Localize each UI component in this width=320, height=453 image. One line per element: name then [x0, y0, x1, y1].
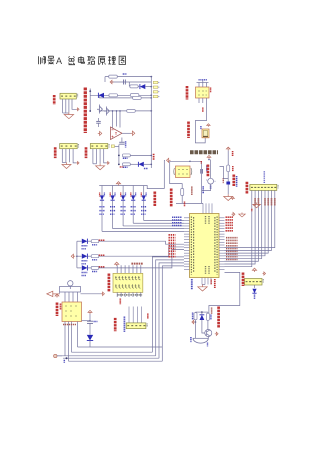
label blue under R18 [92, 244, 98, 246]
label C8 blue [94, 321, 98, 323]
wire LED2 to MCU staircase [99, 247, 184, 256]
diode D6 (blue, down) [121, 195, 125, 200]
label blue under LED3 [82, 272, 88, 274]
label LED3 red [99, 266, 105, 268]
wire R21 down to buzzer [195, 320, 197, 339]
diode D7 (blue, down) [131, 195, 135, 200]
wire D16 loop left [78, 346, 91, 348]
label value rows blue (col 2) [110, 206, 115, 208]
capacitor C2 (left edge) [96, 120, 101, 122]
wire crystal right rail [190, 161, 202, 203]
ground (below J1) [64, 112, 73, 119]
wire keypad bottom pin 6 [136, 292, 138, 297]
keypad module S1-S16 (yellow box) [113, 273, 143, 292]
label red tags right of rail [153, 154, 155, 160]
wire left bend down [104, 77, 106, 82]
wire J2 pin join [62, 162, 66, 164]
resistor R19 [91, 255, 99, 258]
transistor Q1 (top-center) [97, 105, 103, 114]
resistor R3 on y95.3 [130, 94, 139, 97]
wire diode-resistor [87, 240, 91, 242]
label tiny blue right of column 5 [145, 193, 147, 197]
ground below J3 [96, 164, 105, 170]
wire J7 down [254, 285, 256, 288]
label red tiny top-right of J8 [147, 314, 149, 319]
node dots on y110.9 [112, 110, 114, 112]
crystal oscillator box U3 (yellow) [176, 166, 191, 178]
capacitor C6 (blue block) [226, 182, 230, 185]
power arrow right of J2 pins [76, 162, 79, 165]
power arrow right of op-amp (output) [131, 131, 135, 135]
wire R8 bottom [181, 196, 183, 204]
label 超声波测距模块接口(已做PCB板) long red vertical text [84, 88, 87, 134]
wire bottom bus 4 (to riser4) [69, 360, 163, 362]
label red pins below U5 [63, 324, 76, 326]
wire J2 pin4 down+right [73, 149, 76, 163]
wire switch to regulator [64, 292, 66, 302]
label 上电按键复位电路 long red vertical [170, 189, 173, 207]
diode D2 (blue, pointing left) on y95.3 [98, 93, 104, 98]
wire Q3 emitter down [207, 337, 209, 339]
wire LED rail vertical [76, 241, 78, 268]
resistor R5 on y110.9 [127, 110, 136, 113]
label blue below D3 [144, 168, 148, 170]
net-label pins blue marks [158, 82, 159, 96]
power arrow left of op-amp (pointing right) [98, 131, 102, 135]
wire U2 to module J5 (bypass loop) [195, 103, 206, 143]
connector J7 download (yellow) [245, 279, 263, 286]
node dot crystal top [189, 161, 191, 163]
ground below MCU [198, 285, 207, 292]
resistor R22 (vertical right) [206, 313, 209, 320]
node C8 [89, 320, 90, 321]
diode D16 (blue, big, down) [87, 335, 93, 341]
module J5 (small yellow box) [202, 129, 209, 138]
junction dot x118.9 y164.4 [118, 164, 120, 166]
label value rows blue (col 5) [141, 206, 146, 208]
label tiny blue right of column 2 [114, 193, 116, 197]
wire switch right [81, 293, 102, 295]
connector J1 (ultrasonic module, top-left) [60, 93, 76, 99]
resistor R2 on y95.3 [109, 94, 118, 97]
label blue under LED1 [82, 245, 88, 247]
MCU U4 STC89C52 (large yellow DIP) [190, 214, 220, 278]
LED D13 (blue) [82, 254, 88, 259]
label tiny blue right of column 4 [135, 193, 137, 197]
resistor R8 (reset pulldown, vertical) [181, 189, 184, 196]
wire J1 pin4 down+right [72, 99, 76, 109]
node dot LED rail [76, 255, 78, 257]
wire reset to MCU [220, 167, 229, 179]
segment column 1: wire from bus [101, 186, 103, 196]
power arrow above J7 [252, 268, 256, 272]
label blue left of LS1 [190, 337, 192, 343]
MCU top pins [202, 203, 204, 213]
crystal side brackets [174, 168, 192, 175]
wire diode-resistor [87, 267, 91, 269]
label blue under R19 [92, 259, 98, 261]
wire bottom pin join [202, 284, 205, 286]
power arrow feeding segment bus [116, 182, 120, 186]
wire op-amp output [122, 132, 131, 134]
capacitor C1 on y82 wire [122, 80, 124, 85]
node dots rail [150, 94, 152, 96]
connector J8 (bottom middle, yellow) [126, 323, 146, 329]
resistor R20 [91, 266, 99, 269]
title text: 附录A 总电路原理图 (drawn as vector strokes) [39, 56, 55, 64]
wire reset chain upper [227, 151, 229, 166]
wire LED2 left [77, 255, 82, 257]
label 复位电路 red vertical [232, 175, 235, 187]
wire horizontal y=95.3 [90, 94, 151, 96]
node dot left [195, 321, 197, 323]
label 电源模块 red vertical (left of U5) col1 [56, 303, 59, 317]
label blue left of R21 [192, 313, 194, 321]
wire U5 bottom pins [64, 322, 66, 356]
wire U5 right to C8 [82, 320, 91, 322]
connector J3 (IR sensor right) [90, 144, 108, 149]
transistor Q3 (buzzer driver) [205, 330, 212, 337]
label small red marks under [251, 209, 253, 212]
wire from power arrow down to segment bus [163, 163, 165, 189]
module U2 (yellow, top-right) [196, 87, 210, 98]
label maroon +/- left of C6 [222, 178, 224, 184]
resistor R1 on y76.6 [109, 75, 118, 78]
power arrow left of buzzer [192, 320, 195, 323]
wire J3 pin4 down+right [104, 149, 107, 163]
wire MCU pin to buzzer circuit [209, 272, 240, 314]
net-label stack (tiny yellow tags right of rail) [153, 81, 158, 83]
label value rows blue (col 1) [99, 206, 104, 208]
power arrow (left tip, y82) [110, 80, 113, 83]
wire R7 right to D3 [130, 163, 138, 165]
node dot tie [201, 311, 203, 313]
wire J2 pins down [61, 149, 63, 163]
power arrow right of MCU top [232, 212, 235, 215]
wire tag stub [114, 146, 119, 148]
wire riser 2 [156, 260, 184, 356]
label blue right of C9 [125, 141, 127, 147]
label tiny red left of column 5 [140, 193, 142, 197]
label tiny red left of column 3 [120, 193, 122, 197]
label 波特率选择 red vertical (left of J8) [114, 318, 117, 331]
wire U2 top tie bar [197, 82, 209, 84]
wire rail x90 (to transistor cluster) [89, 89, 91, 111]
wire bottom bus 2 (to riser2) [57, 355, 156, 357]
net tag small [111, 145, 114, 148]
connector J2 (IR sensor left) [60, 144, 77, 149]
electrolytic capacitor C4 (circle) [208, 178, 214, 184]
wire power arrow down to C4 [210, 160, 212, 179]
MCU inner bottom pin names [205, 266, 207, 274]
label red tiny right of bottom pins [210, 280, 212, 285]
label 红外对管 red vertical (left of J2) [54, 147, 57, 158]
power arrow (LED rail, hollow left) [71, 254, 75, 258]
wire left join y95-y98 [98, 95, 100, 98]
transistor Q2 [104, 107, 110, 116]
label net names below keypad (gray) [117, 294, 142, 296]
wire keypad top pin 3 [124, 265, 126, 273]
label P1.x net names above keypad (maroon) [131, 263, 142, 265]
label red col2 [60, 304, 62, 311]
speaker/buzzer LS1 (arc) [193, 338, 208, 343]
label maroon on LCD wires (left pair) [254, 198, 256, 205]
label blue below C7 [254, 295, 256, 300]
resistor R18 [91, 240, 99, 243]
label blue tiny above J5 [200, 126, 202, 130]
ground below J2 [62, 162, 71, 168]
wire bottom bus 1 (to riser1) [72, 351, 153, 353]
label tiny blue right of column 1 [103, 193, 105, 197]
wire bottom bus 3 (to riser3) [63, 357, 159, 359]
label tiny red left of column 1 [99, 193, 101, 197]
switch S15 (power on/off, circle) [68, 281, 73, 286]
wire diode top [201, 312, 203, 315]
power arrow top-right of MCU [231, 197, 235, 200]
wire LED3 to MCU staircase [99, 250, 184, 268]
diode D5 (blue, down) [111, 195, 115, 200]
MCU left pins (20) [184, 217, 190, 219]
wire reset chain [227, 172, 229, 182]
label R9 red right [232, 166, 234, 172]
wire keypad bottom pin 4 [128, 292, 130, 297]
label maroon on LCD wires (right group) [264, 198, 266, 205]
wire segment top bus y=185.5 [99, 185, 144, 187]
power arrow right of Q3 [215, 332, 218, 335]
segment staircase wires to MCU [102, 230, 184, 232]
wire keypad top pin 5 [132, 265, 134, 273]
wire horizontal y=97.9 [99, 97, 151, 99]
wire U2 bottom pins [198, 98, 200, 103]
label tiny red right of U2 [210, 88, 212, 93]
power arrow left of switch (large) [47, 291, 60, 296]
junction dot bus3 [66, 357, 68, 359]
LED D14 (blue) [82, 265, 88, 270]
LCD wires staircase to MCU right pins [225, 190, 252, 266]
wire MCU top elbow [176, 202, 203, 204]
label 超声波模块 (red, vertical) [53, 95, 56, 105]
wire segment bus step to right [144, 186, 165, 189]
wire R6 right to rail [130, 154, 151, 156]
wire R22 down to Q3 collector [207, 320, 209, 329]
label blue vertical above J6 [263, 171, 265, 183]
wire J8 top pins [128, 307, 130, 323]
MCU upper-left net labels (blue) [172, 216, 182, 218]
node dot below power arrow [208, 159, 210, 161]
wire diode D16 return loop [90, 346, 162, 348]
label blue above R1 [123, 73, 127, 75]
wire keypad top pin 1 [116, 265, 118, 273]
resistor R7 [123, 163, 131, 166]
label blue vertical (cap value) [236, 176, 238, 187]
wire J1 pin3 down [68, 99, 70, 112]
label C5 blue vertical [202, 186, 204, 193]
capacitor C3 (crystal load) [200, 169, 202, 174]
junction dot x118.9 y155.4 [118, 155, 120, 157]
capacitor C9 below op-amp [121, 138, 123, 142]
text 单片机最小系统 (black small) [190, 150, 218, 154]
wire buzzer top tie [196, 311, 208, 313]
label blue vertical (left of J8) [123, 317, 125, 333]
label GND blue tiny below bus [63, 360, 65, 363]
label blue under R20 [92, 271, 98, 273]
MCU bottom pins [201, 278, 203, 285]
terminal TB1 (power input ball) [54, 354, 57, 357]
wire R22 top [207, 312, 209, 313]
capacitor C8 (right of U5) [87, 320, 93, 322]
label small red near reset top [232, 151, 234, 156]
keypad buttons (two rows of 8) [115, 276, 140, 288]
label C4 blue marks [210, 186, 212, 190]
power arrow (reset VCC) [226, 147, 230, 150]
switch body box [60, 287, 81, 293]
label red tiny below U2 middle pin [202, 108, 204, 113]
label value rows blue (col 3) [121, 206, 126, 208]
MCU right mid labels (maroon, wider) [226, 237, 238, 239]
label tiny blue right of column 3 [125, 193, 127, 197]
wire keypad bottom pin 7 [140, 292, 142, 297]
label tiny red left of column 4 [130, 193, 132, 197]
label small red below elbow [184, 202, 186, 207]
wire J1 pin join [63, 112, 69, 114]
resistor R4 on y97.9 [133, 96, 142, 99]
label LED1 red [99, 239, 105, 241]
wire C8 to D16 [89, 323, 91, 335]
diode D3 (blue, pointing left) [138, 162, 143, 167]
wire vertical x118.9 (IR pullups) [118, 145, 120, 165]
segment column 2: wire from bus [112, 186, 114, 196]
wire diode-resistor [87, 255, 91, 257]
ground arrow right of MCU top (x240) [239, 213, 245, 217]
wire U2 top pins [198, 83, 200, 88]
wire J3 pins down [92, 149, 94, 164]
connector J6 LCD (yellow, top right) [250, 184, 277, 190]
power arrow near J5 [207, 124, 210, 127]
wire J1 pin2 down [65, 99, 67, 113]
resistor R9 (reset, vertical) [227, 165, 230, 172]
resistor R21 (vertical) [194, 313, 197, 320]
segment column 5: wire from bus [143, 186, 145, 196]
diode D15 (blue, up) [200, 315, 205, 320]
junction dot rail x90 top [89, 90, 91, 92]
power arrow above C8 [88, 310, 92, 314]
label C3 value blue [206, 166, 208, 172]
wire keypad bottom pin 5 [132, 292, 134, 297]
wire keypad top pin 6 [136, 265, 138, 273]
wire keypad top pin 2 [120, 265, 122, 273]
label maroon on feed wire [211, 308, 213, 315]
wire op-amp input columns [112, 111, 114, 128]
label blue right of R22 [210, 315, 212, 321]
power arrow right of J3 pins [107, 162, 110, 165]
wire y=110.9 horizontal [99, 110, 152, 112]
label 红外对管 red vertical (left of J3) [85, 147, 88, 158]
wire C4 bottom to rail [202, 184, 211, 190]
wire below diode col 4 [132, 200, 134, 223]
LED D12 (blue) [82, 239, 88, 244]
label 超声波探头 red vertical (left of U2) [186, 86, 189, 100]
label 显示接口 red vertical (left of J6) [246, 182, 249, 194]
wire C8 top [89, 314, 91, 321]
resistor R6 (IR pull-up) [123, 154, 131, 157]
MCU inner pin-name texture right [216, 217, 218, 275]
wire keypad top pin 7 [140, 265, 142, 273]
wire D16 bottom loop [89, 341, 91, 348]
label P2.0 red below keypad [119, 299, 121, 305]
segment column 4: wire from bus [132, 186, 134, 196]
wire loop top [170, 160, 190, 162]
node dot rail-R6 [151, 155, 153, 157]
diode D8 (blue, down) [142, 195, 146, 200]
wire rail vertical x151.3 (top cluster) [150, 77, 152, 168]
wire riser 4 [162, 266, 184, 361]
op-amp U1 (comparator, dark red triangle) [111, 127, 123, 140]
wire keypad top pin 4 [128, 265, 130, 273]
resistor R1b [130, 85, 138, 88]
wire LED1 to MCU staircase [99, 241, 184, 244]
power arrow VCC right of J1 pin4 [76, 108, 79, 111]
power arrow right of switch [101, 292, 104, 295]
label 蜂鸣器驱动电路 red vertical [217, 307, 220, 329]
label blue under LED2 [82, 260, 88, 262]
wire below diode col 5 [143, 200, 145, 220]
ground (reset) [224, 194, 233, 200]
power arrow right of J7 [263, 272, 266, 275]
junction dot rail x90 bottom [89, 110, 91, 112]
wire below diode col 2 [112, 200, 114, 228]
wire D3 right [144, 163, 152, 165]
power arrow above keypad [115, 262, 119, 266]
wire LED1 left [77, 240, 82, 242]
label value rows blue (col 4) [131, 206, 136, 208]
label red vertical below MCU right [214, 279, 216, 288]
wire R8 top [181, 184, 183, 189]
op-amp pin marks (red) [112, 130, 118, 138]
diode D4 (blue, down) [100, 195, 104, 200]
svg-text:A: A [56, 56, 62, 66]
label blue below LS1 [207, 343, 209, 347]
wire below diode col 1 [101, 200, 103, 231]
label STC89C52 blue vertical (below MCU left) [191, 279, 193, 290]
wire LED3 left [77, 267, 82, 269]
wire y=76.6 (top) [105, 76, 151, 78]
node dot rail-D3 [151, 164, 153, 166]
label 晶振电路 red vertical [207, 165, 210, 177]
MCU inner pin-name texture left [190, 217, 192, 275]
wire keypad bottom pin 3 [124, 292, 126, 297]
wire diode bottom to Q3 base [202, 320, 205, 333]
power arrow (left-pointing, feeds bus) [167, 158, 171, 162]
wire riser 1 [152, 257, 184, 352]
wire D1 to rail [145, 86, 151, 88]
wire J1 pin1 down [62, 99, 64, 113]
label Y1 red tiny [200, 161, 202, 164]
wire below diode col 3 [122, 200, 124, 226]
wire keypad bottom pin 1 [116, 292, 118, 297]
label blue tiny above U2 [199, 79, 208, 81]
label blue below R7 [123, 166, 128, 168]
wire riser 3 [159, 263, 184, 358]
label blue below R6 [123, 157, 128, 159]
MCU inner top pin names [205, 216, 207, 224]
wire loop around crystal (left) [170, 161, 183, 183]
segment column 3: wire from bus [122, 186, 124, 196]
capacitor C7 (blue, below J7) [252, 289, 256, 293]
MCU right net labels (red) [226, 216, 234, 218]
MCU right pins (20) [219, 217, 225, 219]
power arrow above MCU crystal rail [207, 156, 211, 159]
label 下载接口 red vertical (left of J7) [242, 273, 245, 287]
